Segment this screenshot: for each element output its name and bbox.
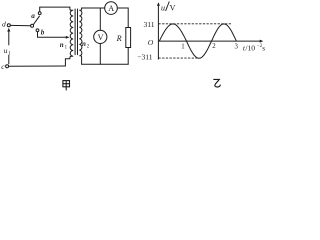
svg-text:s: s xyxy=(262,44,265,52)
y axis xyxy=(157,4,159,60)
secondary bottom wire xyxy=(82,63,129,65)
switch lever S xyxy=(33,16,39,25)
svg-text:−311: −311 xyxy=(137,53,153,62)
contact a xyxy=(38,12,41,15)
+311 dashed xyxy=(158,23,232,25)
switch pivot xyxy=(31,24,34,27)
svg-text:d: d xyxy=(2,19,6,28)
svg-text:n: n xyxy=(82,40,86,48)
secondary top wire xyxy=(82,7,105,9)
primary coil n1 xyxy=(65,7,73,66)
x axis xyxy=(158,40,261,42)
svg-text:2: 2 xyxy=(212,43,216,50)
svg-text:3: 3 xyxy=(235,43,239,50)
resistor R xyxy=(126,28,131,48)
secondary coil n2 xyxy=(79,8,82,64)
svg-text:R: R xyxy=(116,34,122,43)
wire A to R xyxy=(117,8,128,28)
voltmeter V xyxy=(94,30,107,43)
wire b tap xyxy=(38,32,67,38)
voltmeter branch xyxy=(99,8,101,30)
jia character xyxy=(63,81,70,91)
svg-text:n: n xyxy=(60,41,64,49)
tap arrowhead xyxy=(66,36,70,39)
contact b xyxy=(36,29,39,32)
y axis arrowhead xyxy=(157,2,160,6)
x axis arrowhead xyxy=(260,40,264,43)
wire c to primary bottom xyxy=(9,65,66,67)
svg-text:1: 1 xyxy=(181,43,184,50)
svg-text:a: a xyxy=(31,12,35,20)
svg-text:V: V xyxy=(98,33,104,42)
svg-text:A: A xyxy=(108,4,114,13)
yi character xyxy=(213,79,220,87)
ammeter A xyxy=(105,2,118,15)
sine curve xyxy=(159,24,236,58)
terminal d xyxy=(7,24,10,27)
svg-text:V: V xyxy=(170,3,176,12)
-311 dashed xyxy=(158,57,197,59)
svg-text:311: 311 xyxy=(144,20,155,29)
svg-text:/10: /10 xyxy=(245,43,255,52)
svg-text:O: O xyxy=(148,38,154,47)
terminal c xyxy=(6,65,9,68)
svg-text:u: u xyxy=(4,46,8,55)
core xyxy=(74,9,76,55)
wire d to pivot xyxy=(10,24,30,26)
u1 arrow xyxy=(8,55,10,64)
svg-text:b: b xyxy=(41,28,45,36)
svg-text:u: u xyxy=(161,3,165,12)
wire a to primary top xyxy=(40,7,70,12)
